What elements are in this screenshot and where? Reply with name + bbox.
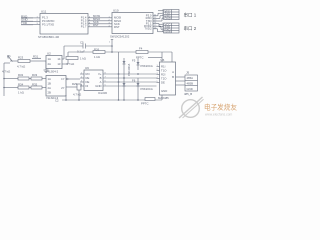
wire U4 outputs [66, 78, 80, 87]
watermark 电子发烧友 [204, 103, 237, 117]
diode D1 [123, 58, 131, 100]
svg-text:J5: J5 [186, 71, 190, 75]
diode F6 [132, 78, 153, 100]
svg-text:DE: DE [161, 81, 165, 85]
op-amp U10 [109, 9, 158, 39]
power VCC arrow [8, 56, 13, 62]
svg-text:www.elecfans.com: www.elecfans.com [205, 112, 233, 116]
svg-text:4.7 kΩ: 4.7 kΩ [17, 65, 25, 69]
svg-text:F6: F6 [132, 79, 136, 83]
wire U2 outputs [62, 46, 68, 64]
resistor R35 [18, 83, 46, 95]
op-amp U1 [37, 10, 92, 40]
svg-text:R23: R23 [18, 56, 24, 60]
svg-text:F4: F4 [139, 47, 143, 51]
resistor R23 [10, 55, 46, 69]
fuse F3 [141, 98, 155, 106]
svg-text:P3.1/TXD: P3.1/TXD [42, 22, 54, 26]
svg-text:电子发烧友: 电子发烧友 [204, 103, 237, 112]
svg-text:2B: 2B [48, 91, 52, 95]
svg-text:RST: RST [114, 25, 120, 29]
node 串口2 [184, 26, 197, 32]
svg-text:1B: 1B [48, 82, 52, 86]
svg-text:DI: DI [86, 84, 89, 88]
svg-text:A: A [172, 70, 174, 74]
op-amp U4 [46, 76, 66, 101]
svg-text:485B: 485B [187, 81, 194, 85]
wire MISO [88, 17, 112, 21]
svg-text:U9: U9 [85, 66, 89, 70]
svg-text:U10: U10 [113, 9, 119, 13]
svg-text:R32: R32 [18, 73, 24, 77]
resistor R33 [2, 70, 46, 81]
resistor R32 [4, 73, 29, 80]
wire U3 to J5 [176, 77, 186, 85]
svg-text:U6: U6 [161, 58, 165, 62]
svg-text:13: 13 [57, 62, 61, 66]
svg-text:STC89C5RC-40I: STC89C5RC-40I [38, 35, 59, 39]
resistor R26 [68, 48, 172, 60]
svg-text:ICL030: ICL030 [98, 91, 107, 95]
svg-text:4.7 kΩ: 4.7 kΩ [2, 70, 10, 74]
connector J2 [164, 23, 180, 35]
capacitor C5 [64, 41, 112, 54]
connector J1 [164, 9, 180, 21]
svg-text:U2: U2 [47, 52, 51, 56]
node 串口1 [184, 12, 197, 18]
svg-text:P1.7: P1.7 [81, 25, 87, 29]
svg-text:GND: GND [165, 17, 171, 21]
wire U9 left pins [80, 74, 84, 86]
svg-text:2A: 2A [48, 86, 52, 90]
svg-text:R31: R31 [33, 55, 39, 59]
svg-text:GND: GND [165, 30, 171, 34]
resistor R34 [4, 83, 29, 90]
svg-text:GND: GND [95, 84, 101, 88]
op-amp U2 [46, 52, 62, 74]
wire MOSI [88, 14, 112, 18]
svg-text:R33: R33 [32, 73, 38, 77]
node TXD [21, 21, 40, 25]
wire rail vertical A [118, 52, 120, 100]
svg-text:1 kΩ: 1 kΩ [18, 91, 24, 95]
resistor R28 [66, 57, 86, 67]
ground [44, 61, 49, 73]
svg-text:MAX485: MAX485 [158, 96, 169, 100]
svg-text:0.1 μF: 0.1 μF [77, 50, 85, 54]
svg-text:C5: C5 [80, 41, 84, 45]
svg-text:B: B [172, 75, 174, 79]
op-amp U3 [157, 58, 176, 100]
svg-text:TXD2: TXD2 [144, 27, 152, 31]
watermark logo [179, 97, 204, 118]
svg-text:PPTC: PPTC [136, 56, 143, 60]
svg-text:1Y: 1Y [61, 77, 65, 81]
node RXD [21, 14, 40, 18]
svg-text:RST: RST [93, 23, 99, 27]
wire serial bus 1 [153, 9, 164, 21]
diode F5 [132, 58, 153, 75]
svg-text:14: 14 [57, 57, 61, 61]
svg-text:485_B: 485_B [184, 92, 192, 96]
svg-text:4.7 kΩ: 4.7 kΩ [73, 93, 81, 97]
svg-text:1A: 1A [48, 77, 52, 81]
svg-text:485A: 485A [187, 76, 194, 80]
svg-text:U11: U11 [41, 10, 47, 14]
svg-text:P6K20CA: P6K20CA [141, 64, 153, 68]
wire RST [88, 23, 112, 27]
resistor R29 [72, 82, 81, 97]
wire rail left [3, 63, 10, 96]
wire ground bus [55, 90, 162, 103]
svg-text:2Y: 2Y [61, 86, 65, 90]
wire U9 right to bus [81, 72, 157, 86]
svg-text:PPTC: PPTC [141, 102, 148, 106]
wire serial bus 2 [153, 23, 164, 33]
svg-text:1 kΩ: 1 kΩ [94, 55, 100, 59]
op-amp U9 [84, 66, 107, 95]
svg-text:1 kΩ: 1 kΩ [80, 57, 86, 61]
svg-text:1A: 1A [48, 57, 52, 61]
svg-text:GND: GND [161, 89, 167, 93]
svg-text:SW10C5A1202: SW10C5A1202 [110, 35, 130, 39]
svg-text:C2: C2 [55, 99, 59, 103]
wire U10 ground stub [109, 40, 113, 53]
svg-text:P6K40CA: P6K40CA [127, 64, 131, 76]
svg-text:74LS04-2: 74LS04-2 [46, 70, 59, 74]
node GND [21, 18, 40, 22]
wire SCK [88, 20, 112, 24]
wire vertical from serial [148, 52, 172, 62]
svg-text:P6K20CA: P6K20CA [141, 87, 153, 91]
fuse F4 [136, 47, 148, 60]
svg-text:GND: GND [187, 87, 193, 91]
svg-text:2A: 2A [48, 62, 52, 66]
svg-text:F5: F5 [132, 59, 136, 63]
connector J5 [184, 71, 198, 97]
svg-text:4.7 kΩ: 4.7 kΩ [66, 62, 74, 66]
